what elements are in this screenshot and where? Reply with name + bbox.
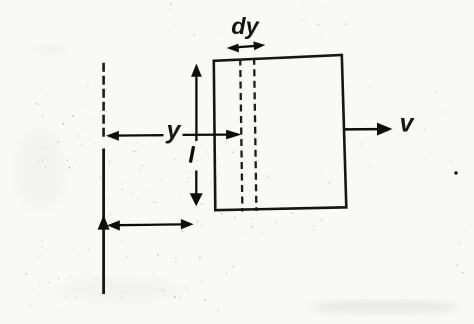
- strip dashed line 2: [254, 58, 256, 211]
- bottom measurement double arrow: [107, 219, 194, 231]
- svg-text:dy: dy: [231, 13, 260, 39]
- loop (square coil): [214, 55, 346, 210]
- label y: [165, 116, 182, 144]
- v velocity arrow: [344, 123, 392, 136]
- svg-text:y: y: [165, 116, 182, 144]
- label v: [400, 110, 416, 138]
- wire dashed upper segment: [102, 63, 105, 137]
- wire solid lower segment: [102, 149, 105, 295]
- label dy: [231, 13, 260, 39]
- current arrowhead on wire: [98, 215, 110, 230]
- y measurement arrow (wire to strip): [106, 130, 242, 141]
- dy double arrow: [227, 41, 266, 52]
- l double arrow (loop height): [190, 64, 203, 207]
- svg-text:v: v: [400, 110, 416, 138]
- label l: [190, 146, 193, 162]
- stray ink dot: [454, 171, 457, 174]
- strip dashed line 1: [240, 59, 242, 212]
